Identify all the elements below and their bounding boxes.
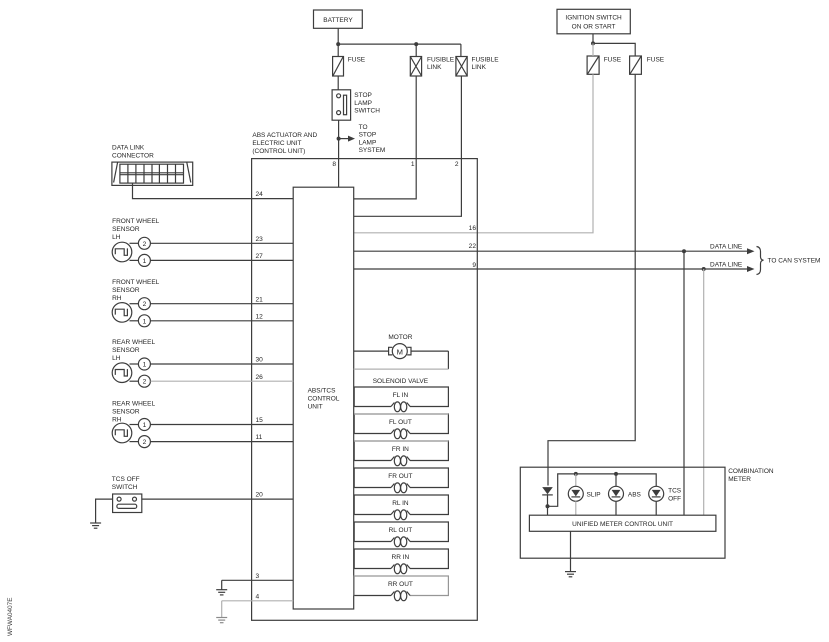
svg-text:WFWA0407E: WFWA0407E — [7, 598, 14, 636]
svg-text:2: 2 — [143, 439, 147, 446]
wire 4 — [222, 600, 294, 602]
fusible link FL2 — [456, 57, 499, 77]
svg-text:11: 11 — [256, 434, 263, 441]
svg-text:FL IN: FL IN — [393, 392, 409, 399]
wire fusible link 2 to pin 2 — [354, 76, 462, 216]
wire fuse to stop lamp switch — [337, 76, 339, 90]
svg-text:24: 24 — [256, 191, 264, 198]
svg-text:FUSIBLE: FUSIBLE — [472, 57, 500, 64]
svg-text:UNIT: UNIT — [308, 403, 323, 410]
svg-text:TCS: TCS — [668, 488, 682, 495]
rear wheel sensor RH — [112, 401, 155, 448]
svg-text:TCS OFF: TCS OFF — [112, 476, 140, 483]
solenoid valve FL OUT — [354, 414, 448, 439]
wire ground stub pin 3 — [221, 580, 223, 589]
svg-text:20: 20 — [256, 492, 264, 499]
wire ignition fuse F2 upper lead — [592, 43, 594, 56]
wire ground stub pin 4 — [221, 601, 223, 618]
wire abs lamp to unit — [615, 501, 617, 515]
wire lamp bus — [548, 474, 657, 506]
svg-text:REAR WHEEL: REAR WHEEL — [112, 401, 155, 408]
svg-text:TO: TO — [359, 124, 368, 131]
wire tcs lamp to unit — [655, 501, 657, 515]
solenoid valve FR IN — [354, 441, 448, 466]
svg-text:FRONT WHEEL: FRONT WHEEL — [112, 279, 160, 286]
svg-text:1: 1 — [143, 318, 147, 325]
wire bus to slip lamp — [575, 474, 577, 486]
wire data line 9 drop — [703, 269, 705, 515]
ABS/TCS control unit U1 — [293, 187, 354, 609]
fuse F2 — [587, 56, 622, 74]
stop lamp switch S1 — [332, 90, 380, 120]
svg-text:LAMP: LAMP — [359, 139, 377, 146]
wire fusible link 2 top — [460, 44, 462, 56]
wire ignition branch — [593, 43, 635, 56]
svg-text:16: 16 — [469, 225, 477, 232]
solenoid valve RL OUT — [354, 522, 448, 547]
wire diode to unified meter unit — [547, 506, 549, 515]
svg-text:IGNITION SWITCH: IGNITION SWITCH — [565, 15, 622, 22]
wire fusible link 1 top — [415, 44, 417, 56]
svg-text:2: 2 — [143, 301, 147, 308]
svg-text:RH: RH — [112, 417, 122, 424]
junction stop lamp tap — [337, 137, 341, 141]
svg-text:2: 2 — [143, 241, 147, 248]
svg-text:CONNECTOR: CONNECTOR — [112, 153, 154, 160]
svg-text:22: 22 — [469, 243, 477, 250]
svg-text:CONTROL: CONTROL — [308, 395, 340, 402]
svg-text:LH: LH — [112, 234, 121, 241]
arrow to stop lamp system — [339, 124, 386, 154]
svg-text:LAMP: LAMP — [354, 100, 372, 107]
wire 9 data line — [354, 261, 755, 272]
svg-text:21: 21 — [256, 296, 264, 303]
slip indicator lamp — [568, 486, 600, 501]
data link connector J1 — [112, 145, 193, 186]
svg-text:RL IN: RL IN — [392, 500, 409, 507]
svg-text:15: 15 — [256, 417, 264, 424]
svg-text:3: 3 — [256, 573, 260, 580]
wire 23 — [150, 242, 293, 244]
svg-text:30: 30 — [256, 357, 264, 364]
junction ignition — [591, 41, 595, 45]
svg-text:FUSE: FUSE — [647, 57, 665, 64]
svg-text:SENSOR: SENSOR — [112, 347, 140, 354]
junction bus slip — [574, 472, 578, 476]
svg-text:1: 1 — [143, 362, 147, 369]
svg-text:FL OUT: FL OUT — [389, 419, 412, 426]
junction wire 22 — [682, 249, 686, 253]
rear wheel sensor LH — [112, 339, 155, 387]
front wheel sensor RH — [112, 279, 160, 327]
svg-text:OFF: OFF — [668, 496, 681, 503]
wire bus to abs lamp — [615, 474, 617, 486]
svg-text:FUSE: FUSE — [348, 57, 366, 64]
svg-text:TO CAN SYSTEM: TO CAN SYSTEM — [768, 258, 821, 265]
abs indicator lamp — [609, 486, 642, 501]
ground TCS switch — [90, 523, 101, 528]
svg-text:UNIFIED METER CONTROL UNIT: UNIFIED METER CONTROL UNIT — [572, 521, 673, 528]
wire battery down — [337, 28, 339, 56]
junction fusible link 1 — [414, 42, 418, 46]
svg-text:DATA LINK: DATA LINK — [112, 145, 145, 152]
svg-text:M: M — [397, 347, 403, 356]
svg-text:STOP: STOP — [359, 132, 377, 139]
wire 12 — [150, 320, 293, 322]
wire battery bus — [338, 43, 461, 45]
svg-text:ON OR START: ON OR START — [572, 24, 616, 31]
svg-text:FUSIBLE: FUSIBLE — [427, 57, 455, 64]
wire 24 data link to pin 24 — [133, 183, 294, 199]
svg-text:1: 1 — [143, 422, 147, 429]
svg-text:LH: LH — [112, 355, 121, 362]
svg-text:12: 12 — [256, 313, 264, 320]
svg-text:BATTERY: BATTERY — [323, 17, 353, 24]
svg-text:2: 2 — [143, 379, 147, 386]
label ABS actuator — [252, 132, 317, 155]
junction wire 9 — [702, 267, 706, 271]
unified meter control unit U2 — [529, 515, 716, 531]
wire data line 22 drop — [683, 251, 685, 515]
svg-text:SWITCH: SWITCH — [112, 484, 138, 491]
svg-text:ELECTRIC UNIT: ELECTRIC UNIT — [252, 140, 301, 147]
svg-text:RH: RH — [112, 295, 122, 302]
tcs off indicator lamp — [649, 486, 682, 502]
svg-text:26: 26 — [256, 374, 264, 381]
svg-text:METER: METER — [728, 476, 751, 483]
svg-text:DATA LINE: DATA LINE — [710, 244, 743, 251]
wire TCS switch to ground — [96, 499, 113, 523]
wire stop lamp switch to pin 8 — [338, 120, 340, 187]
wire 20 — [142, 498, 293, 500]
svg-text:LINK: LINK — [427, 64, 442, 71]
wire 26 — [150, 380, 293, 382]
diode D1 — [542, 487, 553, 506]
svg-text:RL OUT: RL OUT — [389, 527, 413, 534]
battery B1 — [314, 10, 363, 28]
svg-text:MOTOR: MOTOR — [388, 334, 412, 341]
svg-text:ABS: ABS — [628, 491, 642, 498]
svg-text:RR OUT: RR OUT — [388, 581, 413, 588]
ground unified meter unit — [565, 572, 576, 577]
svg-text:1: 1 — [411, 161, 415, 168]
ground pin 3 — [216, 590, 227, 595]
svg-text:SYSTEM: SYSTEM — [359, 147, 386, 154]
wire 16 ignition feed — [354, 74, 593, 233]
svg-text:ABS/TCS: ABS/TCS — [308, 387, 336, 394]
ABS actuator outer box — [252, 159, 478, 621]
svg-text:FR OUT: FR OUT — [388, 473, 412, 480]
wire 27 — [150, 259, 293, 261]
svg-text:8: 8 — [332, 161, 336, 168]
svg-text:COMBINATION: COMBINATION — [728, 468, 774, 475]
svg-text:REAR WHEEL: REAR WHEEL — [112, 339, 155, 346]
ignition switch SW1 — [557, 9, 630, 34]
svg-text:SOLENOID VALVE: SOLENOID VALVE — [373, 378, 429, 385]
front wheel sensor LH — [112, 218, 160, 266]
solenoid valve RR IN — [354, 549, 448, 574]
wire 15 — [150, 424, 293, 426]
combination meter box — [520, 467, 774, 558]
junction battery bus — [336, 42, 340, 46]
svg-text:SENSOR: SENSOR — [112, 287, 140, 294]
svg-text:2: 2 — [455, 161, 459, 168]
solenoid valve RR OUT — [354, 576, 448, 601]
wire 11 — [150, 441, 293, 443]
solenoid valve RL IN — [354, 495, 448, 520]
wire fusible link 1 to pin 1 — [354, 76, 417, 199]
svg-text:ABS ACTUATOR AND: ABS ACTUATOR AND — [252, 132, 317, 139]
junction bus abs — [614, 472, 618, 476]
wire 30 — [150, 363, 293, 365]
svg-text:SLIP: SLIP — [587, 491, 601, 498]
fusible link FL1 — [410, 57, 454, 77]
wire ignition down — [592, 34, 594, 44]
svg-text:FRONT WHEEL: FRONT WHEEL — [112, 218, 160, 225]
svg-text:LINK: LINK — [472, 64, 487, 71]
svg-text:4: 4 — [256, 593, 260, 600]
fuse F1 — [333, 57, 366, 77]
wire slip lamp to unit — [575, 501, 577, 515]
wire unified meter unit to ground — [570, 531, 572, 571]
svg-text:27: 27 — [256, 253, 264, 260]
wire 21 — [150, 303, 293, 305]
svg-text:FUSE: FUSE — [604, 57, 622, 64]
wire 22 data line — [354, 243, 755, 254]
wire 3 — [222, 579, 294, 581]
svg-text:SWITCH: SWITCH — [354, 108, 380, 115]
junction diode cathode — [546, 504, 550, 508]
solenoid valve FL IN — [354, 387, 448, 412]
wire fuse F3 to combination meter diode — [548, 74, 635, 485]
solenoid valve FR OUT — [354, 468, 448, 493]
svg-text:1: 1 — [143, 258, 147, 265]
TCS off switch S2 — [112, 476, 142, 513]
svg-text:SENSOR: SENSOR — [112, 409, 140, 416]
svg-text:(CONTROL UNIT): (CONTROL UNIT) — [252, 148, 305, 155]
svg-text:STOP: STOP — [354, 92, 372, 99]
ground pin 4 — [216, 618, 227, 623]
fuse F3 — [630, 56, 665, 74]
svg-text:SENSOR: SENSOR — [112, 226, 140, 233]
motor M1 — [354, 334, 449, 369]
svg-text:23: 23 — [256, 236, 264, 243]
svg-text:9: 9 — [472, 262, 476, 269]
svg-text:RR IN: RR IN — [392, 554, 410, 561]
brace to CAN system — [757, 247, 821, 275]
wire motor return — [354, 368, 449, 370]
svg-text:DATA LINE: DATA LINE — [710, 261, 743, 268]
svg-text:FR IN: FR IN — [392, 446, 409, 453]
